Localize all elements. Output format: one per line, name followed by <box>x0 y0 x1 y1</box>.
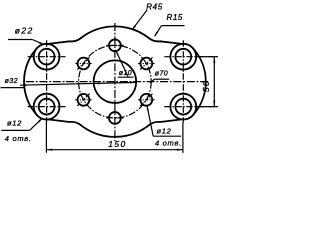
upper-right bolt hole horizontal tick <box>138 63 154 65</box>
svg-text:150: 150 <box>108 139 126 149</box>
svg-text:ø10: ø10 <box>119 70 132 77</box>
label R45 leader line <box>132 10 147 30</box>
outline bottom central arc <box>81 125 149 137</box>
label R15 shelf line <box>162 25 185 27</box>
ø32 label underline <box>1 87 24 89</box>
bottom-left lug hole circle <box>39 99 55 115</box>
outline top-right tangent line and R15 fillet <box>149 38 182 44</box>
top bolt hole circle <box>109 39 121 51</box>
lower-right bolt hole horizontal tick <box>138 99 154 101</box>
upper-left bolt hole diagonal tick <box>77 57 89 69</box>
svg-text:ø70: ø70 <box>155 70 168 77</box>
label text ø22 <box>15 25 34 35</box>
central bore circle <box>94 60 137 103</box>
ø32 right wall arrow <box>130 82 135 84</box>
bottom dim left arrow <box>46 149 52 151</box>
vertical centerline <box>114 23 116 141</box>
top-left lug horizontal centerline <box>28 56 66 58</box>
dimension text 50 <box>201 80 211 92</box>
right dim bottom arrow <box>213 101 215 107</box>
label text lower ø12 <box>157 126 172 135</box>
label ø12 shelf line <box>1 129 29 131</box>
label ø12 leader arrow <box>38 118 43 122</box>
svg-text:R45: R45 <box>146 2 162 11</box>
bolt circle centerline <box>79 45 152 118</box>
lower-left bolt hole horizontal tick <box>75 99 91 101</box>
outline bottom-left tangent line and R15 fillet <box>48 119 81 125</box>
upper-right bolt hole diagonal tick <box>140 57 152 69</box>
label ø12 leader line <box>30 118 43 130</box>
label R15 leader line <box>155 26 162 37</box>
label ø22 shelf line <box>8 39 32 41</box>
dimension text 150 <box>108 139 126 149</box>
top bolt hole horizontal tick <box>106 44 123 46</box>
upper-left bolt hole circle <box>78 58 90 70</box>
label text ø70 <box>155 70 168 77</box>
label text R45 <box>146 2 162 11</box>
svg-text:R15: R15 <box>167 13 183 22</box>
svg-text:ø12: ø12 <box>7 119 22 128</box>
label text ø10 inside <box>119 70 132 77</box>
bottom bolt hole circle <box>109 112 121 124</box>
ø32 underline jog <box>24 84 26 87</box>
svg-text:4 отв.: 4 отв. <box>155 138 182 147</box>
label lower ø12 leader arrow <box>147 105 149 110</box>
outline bottom-right tangent line and R15 fillet <box>149 119 182 125</box>
label ø22 leader line <box>32 40 44 45</box>
right dimension line <box>213 57 215 107</box>
bottom bolt hole horizontal tick <box>106 117 123 119</box>
lower-left bolt hole circle <box>78 94 90 106</box>
label lower ø12 shelf line <box>153 135 181 137</box>
label lower ø12 leader line <box>147 106 153 136</box>
label ø10 leader arrow <box>116 50 119 55</box>
label ø10 leader line <box>116 51 128 77</box>
svg-text:ø22: ø22 <box>15 25 34 35</box>
label text R15 <box>167 13 183 22</box>
svg-text:ø32: ø32 <box>5 78 18 85</box>
top-right lug boss circle <box>170 44 196 70</box>
label text ø32 <box>5 78 18 85</box>
bottom-right lug horizontal centerline <box>164 106 217 108</box>
outline right end cap arc <box>193 48 206 115</box>
outline top central arc <box>81 26 149 38</box>
label ø70 shelf line <box>154 78 169 80</box>
svg-text:ø12: ø12 <box>157 126 172 135</box>
label ø10 shelf line <box>118 76 134 78</box>
top-right lug hole circle <box>175 49 191 65</box>
label ø22 leader arrow <box>39 42 44 45</box>
label text lower 4 otv <box>155 138 182 147</box>
upper-left bolt hole horizontal tick <box>75 63 91 65</box>
outline left end cap arc <box>24 48 37 115</box>
label text 4 otv <box>5 134 32 143</box>
svg-text:50: 50 <box>201 80 211 92</box>
bottom-right lug boss circle <box>170 94 196 120</box>
upper-right bolt hole circle <box>140 58 152 70</box>
label text ø12 <box>7 119 22 128</box>
label ø70 leader line <box>150 79 154 83</box>
bottom-left lug horizontal centerline <box>28 106 66 108</box>
lower-right bolt hole circle <box>140 94 152 106</box>
right dim top arrow <box>213 57 215 63</box>
top-right lug horizontal centerline <box>164 56 217 58</box>
ø32 dimension leader line <box>20 82 136 85</box>
right dim bottom extension line <box>196 106 218 108</box>
horizontal centerline <box>26 81 209 83</box>
lower-left bolt hole diagonal tick <box>77 94 89 106</box>
bottom-left lug boss circle <box>34 94 60 120</box>
bottom dim left extension line <box>45 118 47 153</box>
lower-right bolt hole diagonal tick <box>140 94 152 106</box>
bottom dim right extension line <box>182 123 184 153</box>
label R45 leader arrow <box>132 25 136 30</box>
right dim top extension line <box>196 56 218 58</box>
top-left lug hole circle <box>39 49 55 65</box>
bottom-right lug hole circle <box>175 99 191 115</box>
right lugs vertical centerline <box>182 40 184 122</box>
bottom dim right arrow <box>177 149 183 151</box>
outline top-left tangent line and R15 fillet <box>48 38 81 44</box>
svg-text:4 отв.: 4 отв. <box>5 134 32 143</box>
ø32 left wall arrow <box>94 83 99 85</box>
top-left lug boss circle <box>34 44 60 70</box>
left lugs vertical centerline <box>46 40 48 122</box>
label R15 leader arrow <box>154 32 158 37</box>
bottom dimension line <box>46 149 183 151</box>
